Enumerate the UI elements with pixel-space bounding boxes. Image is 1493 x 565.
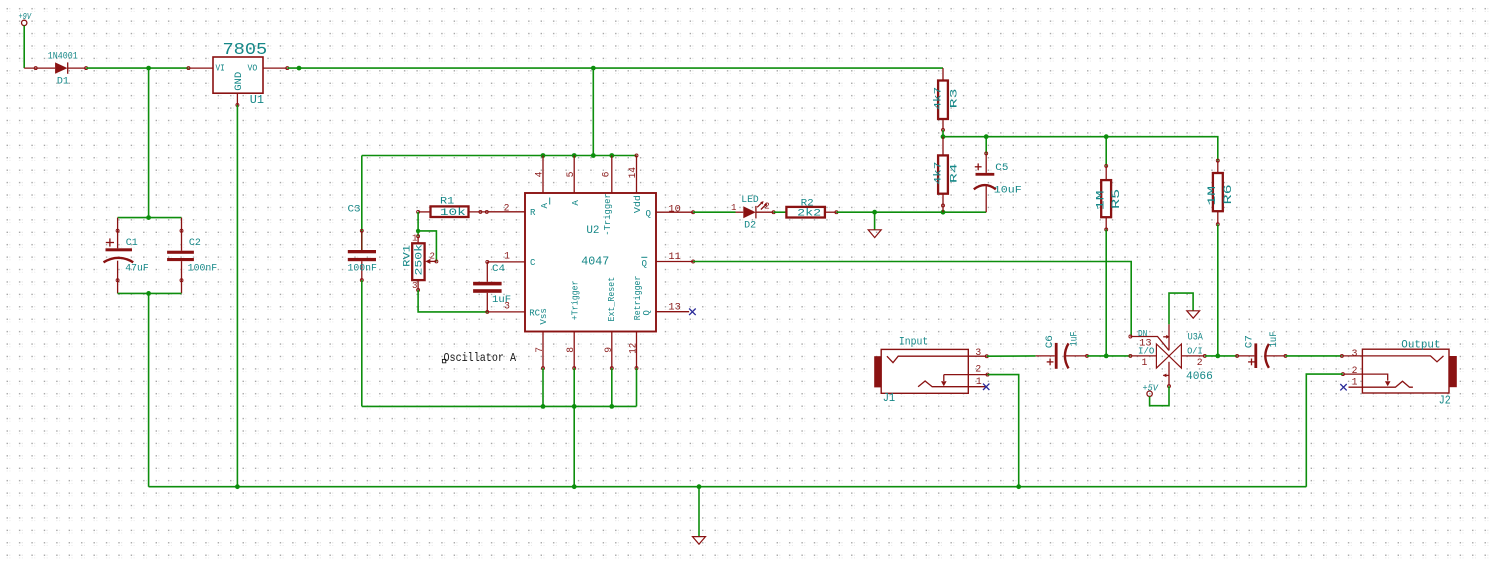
wire LED to R2 (774, 211, 787, 213)
label 1uF C7 (1268, 331, 1279, 347)
wire osc bottom rail (362, 405, 637, 407)
svg-text:1M: 1M (1207, 186, 1219, 206)
pin number 8 (565, 347, 576, 353)
label R1 (440, 196, 454, 207)
wire gnd stub bottom (698, 487, 700, 537)
label C5 (995, 162, 1008, 173)
svg-text:10: 10 (668, 203, 681, 214)
wire osc top rail (362, 155, 637, 157)
label R3 (948, 88, 959, 108)
pin U2-7 (542, 332, 545, 370)
pin U2-11 (656, 260, 695, 263)
pin number 3 (504, 301, 510, 312)
svg-text:-Trigger: -Trigger (602, 193, 613, 236)
pin number RV1-3 (412, 280, 417, 291)
resistor R2 (786, 207, 838, 218)
wire pin9 drop (611, 368, 613, 406)
text Oscillator A (442, 351, 516, 365)
svg-text:47uF: 47uF (125, 263, 149, 274)
svg-text:D2: D2 (744, 219, 756, 230)
pin U2-9 (610, 332, 613, 370)
label R6 (1223, 184, 1235, 204)
junction C1C2 bottom (146, 291, 151, 296)
junction node VIN (146, 66, 151, 71)
svg-text:Retrigger: Retrigger (632, 276, 643, 321)
ground symbol U3A (1187, 311, 1200, 318)
junction osc rail p4 (541, 153, 546, 158)
junction osc rail tap (591, 153, 596, 158)
label C4 (492, 263, 505, 274)
pin name Q13 (641, 310, 652, 316)
junction p9 (609, 404, 614, 409)
pin number U3A-13 (1139, 337, 1152, 348)
potentiometer RV1 (412, 235, 438, 292)
label C6 (1044, 335, 1055, 348)
junction gnd osc (572, 484, 577, 489)
svg-text:4k7: 4k7 (932, 87, 943, 110)
label LED (741, 194, 759, 205)
pin name DN (1138, 328, 1147, 339)
junction RV1 top tap (416, 229, 420, 233)
label 1N4001 (48, 51, 78, 62)
svg-text:R: R (530, 207, 536, 218)
wire supply drop to osc rail (592, 68, 594, 155)
label 100nF C3 (348, 263, 378, 274)
svg-text:I/O: I/O (1138, 346, 1154, 357)
label RV1 (402, 245, 413, 267)
svg-text:2: 2 (1197, 357, 1203, 368)
resistor R1 (417, 206, 525, 217)
svg-text:R3: R3 (948, 88, 959, 108)
pin U2-1 (487, 261, 525, 263)
svg-text:2: 2 (975, 363, 981, 374)
pin name +Trigger (570, 280, 581, 320)
pin name Q10 (646, 208, 652, 219)
pin name R (530, 207, 536, 218)
junction 5V rail supply tap (591, 66, 596, 71)
junction osc rail p6 (609, 153, 614, 158)
junction bias C5 (984, 134, 989, 139)
wire C1C2 bottom bar (118, 292, 182, 294)
pin name RC (529, 307, 540, 318)
svg-text:9: 9 (603, 347, 614, 353)
pin name O/I (1187, 346, 1203, 357)
svg-text:R5: R5 (1111, 189, 1123, 209)
wire RV1 wiper loop (418, 231, 436, 262)
svg-text:LED: LED (741, 194, 759, 205)
svg-text:6: 6 (601, 171, 612, 177)
svg-text:1: 1 (412, 233, 418, 244)
pin number 6 (601, 171, 612, 177)
no-connect J1-1 (983, 384, 989, 390)
label D2 (744, 219, 756, 230)
junction R4 bottom (941, 210, 946, 215)
pin name Ext_Reset (606, 277, 617, 322)
svg-text:J1: J1 (883, 391, 896, 405)
label Output (1401, 339, 1440, 351)
label J1 (883, 391, 896, 405)
svg-text:R1: R1 (440, 196, 454, 207)
label 2k2 (797, 208, 821, 219)
pin U2-12 (635, 332, 638, 370)
pin name Retrigger (632, 276, 643, 321)
wire +9V drop (23, 26, 25, 69)
svg-text:1: 1 (976, 376, 982, 387)
junction gnd sym (697, 484, 702, 489)
svg-text:+Trigger: +Trigger (570, 280, 581, 320)
wire C3 bottom drop (361, 280, 363, 406)
svg-text:250k: 250k (414, 244, 425, 276)
regulator U1 7805 (187, 41, 289, 106)
svg-text:4k7: 4k7 (932, 161, 943, 184)
jack J2 (1340, 349, 1456, 393)
pin number J2-1 (1352, 377, 1358, 388)
svg-text:Ext_Reset: Ext_Reset (606, 277, 617, 322)
wire U3A out (1205, 355, 1237, 357)
svg-text:D1: D1 (57, 75, 69, 86)
label C2 (189, 237, 201, 248)
junction gnd tap (872, 210, 877, 215)
svg-text:1uF: 1uF (1268, 331, 1279, 347)
pin number J2-3 (1352, 348, 1358, 359)
label U3A (1188, 332, 1203, 343)
svg-text:Oscillator A: Oscillator A (444, 351, 517, 365)
label 1uF C6 (1069, 331, 1080, 346)
wire R6 drop (1217, 224, 1219, 356)
resistor R4 (938, 137, 948, 213)
svg-text:A: A (539, 203, 550, 209)
label 250k (414, 244, 425, 276)
junction R5 node (1104, 354, 1109, 359)
capacitor C6 (1036, 343, 1089, 369)
svg-text:VI: VI (216, 62, 225, 73)
wire 5V rail (287, 67, 943, 69)
svg-text:C3: C3 (348, 204, 361, 215)
capacitor C5 (974, 137, 996, 213)
label 1uF C4 (492, 294, 511, 305)
svg-text:O/I: O/I (1187, 346, 1203, 357)
pin name Q11 (641, 257, 647, 269)
wire C7 to J2 (1286, 355, 1342, 357)
svg-text:2k2: 2k2 (797, 208, 821, 219)
pin U2-3 (488, 311, 525, 313)
label R4 (948, 163, 959, 183)
power flag +5V (1143, 382, 1160, 396)
svg-text:1: 1 (504, 250, 510, 261)
svg-text:11: 11 (668, 251, 681, 262)
svg-text:Q: Q (642, 258, 648, 269)
svg-text:1M: 1M (1096, 191, 1108, 211)
diode D1 (24, 62, 87, 73)
svg-text:1uF: 1uF (1069, 331, 1080, 346)
pin U2-13 (656, 311, 689, 313)
label U2 (586, 225, 599, 237)
label 4066 (1186, 371, 1213, 383)
pin number D2-2 (764, 200, 769, 211)
analog switch U3A (1129, 324, 1206, 387)
pin U2-4 (542, 156, 544, 194)
label Input (899, 337, 928, 349)
pin U2-5 (573, 156, 575, 194)
svg-text:100nF: 100nF (188, 263, 218, 274)
pin number RV1-2 (430, 250, 435, 261)
svg-text:C1: C1 (126, 237, 138, 248)
pin name I/O (1138, 346, 1154, 357)
pin number 12 (627, 343, 638, 354)
svg-text:4047: 4047 (581, 255, 609, 269)
no-connect J2-1 (1340, 384, 1346, 390)
pin number U3A-1 (1142, 357, 1148, 368)
wire U3A top to gnd (1169, 293, 1193, 324)
svg-text:3: 3 (1352, 348, 1358, 359)
label J2 (1439, 393, 1451, 407)
pin number 7 (534, 347, 545, 353)
svg-text:100nF: 100nF (348, 263, 378, 274)
junction p7 (541, 404, 546, 409)
label R2 (801, 198, 814, 209)
label 47uF (125, 263, 149, 274)
wire J2 ring to ground rail (1306, 374, 1343, 487)
label 1M R6 (1207, 186, 1219, 206)
jack J1 (874, 349, 989, 393)
svg-text:C5: C5 (995, 162, 1008, 173)
svg-text:J2: J2 (1439, 393, 1451, 407)
power flag +9V (19, 11, 33, 25)
pin name C (530, 257, 536, 268)
wire RV1 to RC (418, 290, 488, 312)
svg-text:C2: C2 (189, 237, 201, 248)
wire Q to LED (693, 211, 735, 213)
svg-text:R6: R6 (1223, 184, 1235, 204)
svg-text:Vss: Vss (538, 308, 549, 324)
svg-text:U1: U1 (250, 93, 264, 107)
pin U2-2 (488, 211, 525, 213)
label 4k7 R4 (932, 161, 943, 184)
wire C1C2 top bar (118, 217, 182, 219)
svg-text:7: 7 (534, 347, 545, 353)
capacitor C7 (1236, 343, 1287, 368)
pin U2-10 (656, 211, 695, 214)
label C1 (126, 237, 138, 248)
svg-text:14: 14 (627, 167, 638, 179)
pin number 14 (627, 167, 638, 179)
capacitor C1 (104, 218, 134, 294)
wire +5V to U3A (1150, 386, 1169, 406)
label C3 (348, 204, 361, 215)
svg-text:U2: U2 (586, 225, 599, 237)
wire Qbar control (693, 262, 1131, 337)
pin number D2-1 (731, 202, 737, 213)
capacitor C4 (473, 260, 502, 313)
junction gnd J1 (1016, 484, 1021, 489)
svg-text:2: 2 (504, 202, 510, 213)
svg-text:3: 3 (975, 347, 981, 358)
svg-text:C4: C4 (492, 263, 505, 274)
pin number 5 (565, 171, 576, 177)
svg-text:2: 2 (1352, 365, 1358, 376)
svg-text:Input: Input (899, 337, 928, 349)
svg-text:1N4001: 1N4001 (48, 51, 78, 62)
ground symbol mid (868, 230, 881, 238)
junction divider (941, 134, 946, 139)
pin number 11 (668, 251, 681, 262)
wire C1C2 top drop (148, 68, 150, 218)
junction p8 (572, 404, 577, 409)
pin number J1-2 (975, 363, 981, 374)
svg-text:A: A (570, 200, 581, 206)
pin number 10 (668, 203, 681, 214)
svg-text:10k: 10k (440, 207, 466, 218)
capacitor C2 (167, 218, 194, 294)
svg-text:+5V: +5V (1143, 382, 1160, 393)
svg-text:10uF: 10uF (994, 185, 1022, 196)
label 1M R5 (1096, 191, 1108, 211)
svg-text:C6: C6 (1044, 335, 1055, 348)
svg-text:VO: VO (248, 62, 258, 73)
svg-text:4: 4 (534, 171, 545, 177)
svg-text:1: 1 (1142, 357, 1148, 368)
wire J1 tip to C6 (987, 355, 1036, 357)
pin number 2 (504, 202, 510, 213)
svg-text:2: 2 (764, 200, 769, 211)
wire C6 to U3A (1087, 355, 1130, 357)
label R5 (1111, 189, 1123, 209)
wire pin8 drop (573, 368, 575, 406)
pin number U3A-2 (1197, 357, 1203, 368)
pin number J2-2 (1352, 365, 1358, 376)
svg-text:4066: 4066 (1186, 371, 1213, 383)
capacitor C3 (348, 156, 376, 282)
resistor R3 (938, 68, 948, 131)
wire R3 to junction (942, 130, 944, 137)
junction bias R5 (1104, 134, 1109, 139)
pin name Vss (538, 308, 549, 324)
junction gnd U1 (235, 484, 240, 489)
svg-text:3: 3 (504, 301, 510, 312)
label D1 (57, 75, 69, 86)
pin name A (570, 200, 581, 206)
wire J1 ring drop (988, 375, 1019, 487)
pin number 9 (603, 347, 614, 353)
pin number 1 (504, 250, 510, 261)
resistor R6 (1213, 159, 1223, 226)
wire ground rail (149, 486, 1307, 488)
label 100nF C2 (188, 263, 218, 274)
wire osc gnd drop (573, 406, 575, 486)
svg-text:C: C (530, 257, 536, 268)
wire D1 to U1 (86, 67, 188, 69)
wire pin12 drop (636, 368, 638, 406)
wire R2 to divider (836, 211, 986, 213)
wire gnd stub (874, 212, 876, 230)
junction R6 node (1215, 354, 1220, 359)
svg-text:7805: 7805 (223, 41, 268, 60)
svg-text:Output: Output (1401, 339, 1440, 351)
svg-text:Q: Q (646, 208, 652, 219)
wire bias rail (943, 137, 1218, 161)
svg-text:RV1: RV1 (402, 245, 413, 267)
label 10uF (994, 185, 1022, 196)
led D2 (736, 201, 776, 218)
svg-text:Vdd: Vdd (632, 195, 643, 213)
svg-text:13: 13 (668, 302, 681, 313)
ic U2 body (525, 193, 656, 332)
wire left drop to ground rail (148, 293, 150, 486)
svg-text:5: 5 (565, 171, 576, 177)
pin number 4 (534, 171, 545, 177)
wire R5 drop (1105, 230, 1107, 356)
svg-text:8: 8 (565, 347, 576, 353)
resistor R5 (1101, 137, 1111, 231)
svg-text:+9V: +9V (19, 11, 33, 22)
svg-text:12: 12 (627, 343, 638, 354)
label 4k7 R3 (932, 87, 943, 110)
svg-text:3: 3 (412, 280, 417, 291)
junction osc rail p5 (572, 153, 577, 158)
pin number J1-1 (976, 376, 982, 387)
junction C1C2 top (146, 215, 151, 220)
svg-text:1: 1 (731, 202, 737, 213)
label C7 (1243, 335, 1254, 348)
pin number RV1-1 (412, 233, 418, 244)
pin U2-14 (635, 154, 638, 193)
junction 5V rail a (297, 66, 302, 71)
wire U1 GND drop (236, 105, 238, 487)
wire pin7 drop (542, 368, 544, 406)
label 4047 (581, 255, 609, 269)
svg-text:R4: R4 (948, 163, 959, 183)
wire R1 to RV1 (417, 212, 419, 236)
pin name Abar (539, 198, 550, 209)
svg-text:U3A: U3A (1188, 332, 1203, 343)
pin U2-8 (573, 332, 576, 370)
pin name -Trigger (602, 193, 613, 236)
svg-text:2: 2 (430, 250, 435, 261)
pin number 13 (668, 302, 681, 313)
pin name Vdd (632, 195, 643, 213)
svg-text:GND: GND (233, 72, 244, 91)
pin U2-6 (611, 156, 613, 194)
label 10k (440, 207, 466, 218)
ground symbol bottom (693, 537, 706, 545)
svg-text:C7: C7 (1243, 335, 1254, 348)
no-connect pin13 (689, 309, 696, 316)
svg-text:1: 1 (1352, 377, 1358, 388)
pin number J1-3 (975, 347, 981, 358)
label U1 (250, 93, 264, 107)
